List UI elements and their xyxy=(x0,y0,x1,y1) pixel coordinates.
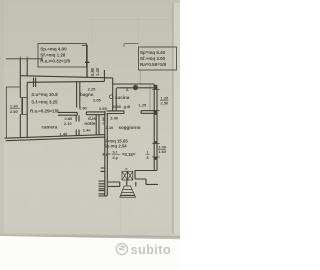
balcony outline left xyxy=(6,87,20,138)
svg-text:Sp.=mq 4.00: Sp.=mq 4.00 xyxy=(40,47,67,52)
cucina window wall blocks xyxy=(154,85,158,89)
svg-text:cucina: cucina xyxy=(115,95,130,100)
subito watermark xyxy=(116,242,171,257)
svg-text:2.05: 2.05 xyxy=(93,97,102,102)
svg-text:1.40: 1.40 xyxy=(95,67,100,76)
soggiorno top wall (double, door gap 1.25) xyxy=(107,111,155,114)
faint crease above right box xyxy=(137,18,140,47)
soggiorno left wall (double) xyxy=(105,111,108,196)
faint crease above terrace xyxy=(90,19,93,45)
svg-text:S.u=mq 10.8: S.u=mq 10.8 xyxy=(31,92,58,97)
sheet right edge line xyxy=(172,3,173,234)
wall W1 below bagno (double, door gap 0.90) xyxy=(58,112,106,115)
svg-text:2.10: 2.10 xyxy=(64,121,73,126)
svg-text:2.50: 2.50 xyxy=(10,109,19,114)
terrace door jamb xyxy=(103,70,105,81)
svg-text:subito: subito xyxy=(131,242,171,257)
svg-text:S.f.=mq 3.25: S.f.=mq 3.25 xyxy=(31,100,58,105)
svg-text:2.10: 2.10 xyxy=(106,125,115,130)
svg-text:1.40: 1.40 xyxy=(60,131,69,136)
svg-text:R.a.i=0.32=1/8: R.a.i=0.32=1/8 xyxy=(40,59,70,64)
bottom wall (double, tilted) xyxy=(5,135,106,141)
svg-text:1.40: 1.40 xyxy=(83,128,92,133)
svg-text:soggiorno: soggiorno xyxy=(119,125,141,130)
svg-text:Sp.mq 2.54: Sp.mq 2.54 xyxy=(104,143,127,148)
svg-text:0.80: 0.80 xyxy=(113,104,122,109)
svg-text:1: 1 xyxy=(147,151,149,155)
ink blob near 2.40 in cucina xyxy=(133,85,138,90)
bagno / cucina divider (double) xyxy=(113,84,117,111)
svg-text:2.50: 2.50 xyxy=(161,101,170,106)
svg-text:0.80: 0.80 xyxy=(101,116,106,125)
small circle (door swing) near cucina label xyxy=(109,95,113,99)
svg-text:2.: 2. xyxy=(126,87,129,92)
soggiorno window wall blocks xyxy=(154,141,158,143)
bagno left wall (double) xyxy=(77,82,80,108)
garden door stubs left of soggiorno wall xyxy=(99,168,108,196)
svg-text:S.p: S.p xyxy=(113,156,118,160)
door X-boxes (entrance) xyxy=(122,169,133,180)
svg-text:bagno: bagno xyxy=(80,92,94,97)
annotation box 1 (top-left) xyxy=(38,44,87,68)
svg-text:=0.16=: =0.16= xyxy=(122,152,136,157)
photo bottom edge shadow xyxy=(0,233,180,240)
svg-text:Sf.+mq 3.00: Sf.+mq 3.00 xyxy=(140,56,166,61)
svg-text:0.95: 0.95 xyxy=(99,106,108,111)
svg-text:1.25: 1.25 xyxy=(138,102,147,107)
terrace left wall xyxy=(85,45,90,78)
svg-text:Ra=: Ra= xyxy=(103,152,111,157)
svg-text:1.30: 1.30 xyxy=(10,104,19,109)
photo of plan: paper background xyxy=(0,0,180,270)
svg-text:g.⊘: g.⊘ xyxy=(124,104,132,109)
left edge shading xyxy=(0,0,4,236)
faint cucina counter line xyxy=(149,85,151,110)
short divider below main wall in camera xyxy=(34,78,36,87)
terrace top-right line xyxy=(124,44,139,47)
faint terrace right boundary under box2 xyxy=(139,70,142,84)
faint sheet top edge xyxy=(85,18,173,21)
steps (stacked trapezoid) xyxy=(120,186,136,197)
top-left balcony line xyxy=(6,57,42,59)
window on left wall: jamb ticks and pane line xyxy=(20,98,27,115)
svg-text:R.a.=0.29=1/8: R.a.=0.29=1/8 xyxy=(30,108,59,113)
svg-text:2.25: 2.25 xyxy=(88,87,97,92)
svg-text:camera: camera xyxy=(42,125,58,130)
steps stem xyxy=(126,180,128,185)
svg-text:2.40: 2.40 xyxy=(110,115,119,120)
svg-text:Sf.=mq 1.28: Sf.=mq 1.28 xyxy=(40,52,66,57)
garden door jambs xyxy=(108,182,136,186)
camera / hall divider wall with door xyxy=(76,115,79,136)
svg-text:0.90: 0.90 xyxy=(79,106,88,111)
svg-text:Ra=0.55=1/8: Ra=0.55=1/8 xyxy=(140,62,167,67)
annotation box 2 (top-right) xyxy=(139,47,177,70)
texts xyxy=(10,47,169,161)
hall / soggiorno stub wall xyxy=(96,115,99,135)
main top wall (double, terrace door gap) xyxy=(20,76,112,83)
bottom-right wall and recess xyxy=(134,171,158,185)
cucina top wall step (double) xyxy=(113,78,155,88)
svg-text:S.f.: S.f. xyxy=(113,151,118,155)
right outer wall (double) xyxy=(154,84,157,171)
svg-text:8: 8 xyxy=(147,156,149,160)
svg-text:Sp=mq 5.40: Sp=mq 5.40 xyxy=(140,50,166,55)
left outer wall (double) with window xyxy=(20,59,27,138)
faint crease below steps xyxy=(119,198,122,232)
svg-text:notte: notte xyxy=(84,121,95,126)
